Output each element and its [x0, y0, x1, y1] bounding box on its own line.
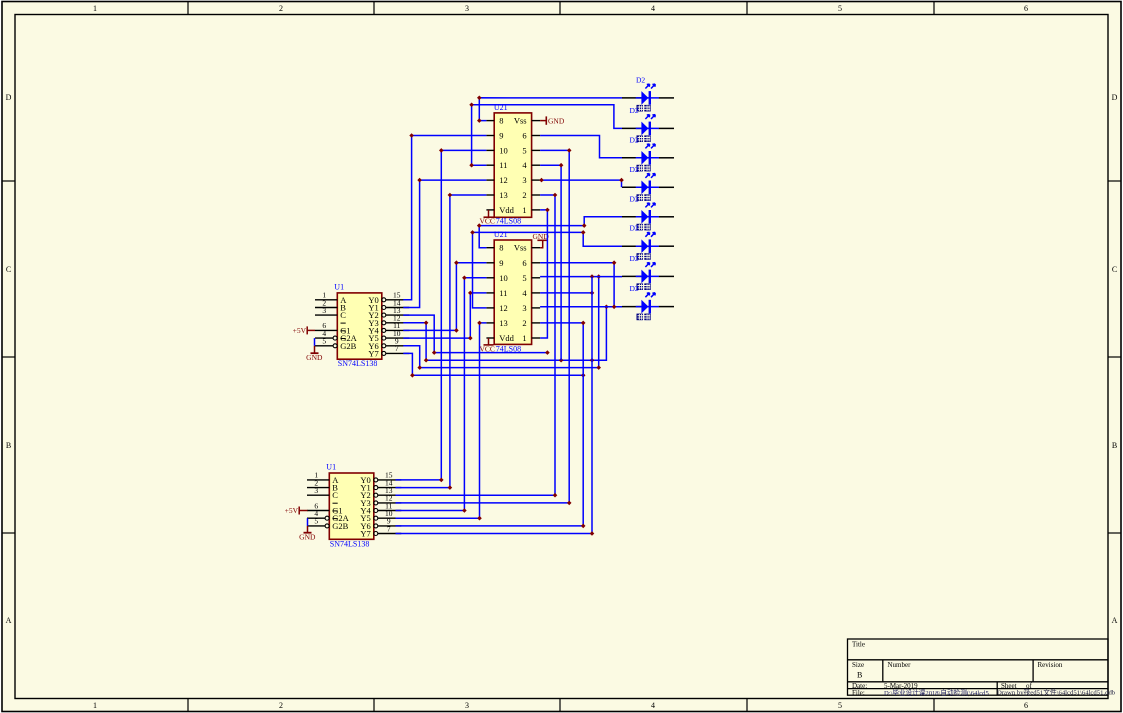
svg-text:74LS08: 74LS08	[496, 217, 521, 226]
U1-bottom output pin 11 (Y4) stub with bubble	[374, 509, 378, 513]
U21-bottom right pin 3 stub	[532, 307, 541, 309]
svg-text:2: 2	[522, 190, 526, 200]
svg-text:6: 6	[522, 131, 526, 141]
svg-text:File:: File:	[852, 689, 865, 697]
U21-top left pin 11 stub	[486, 164, 494, 166]
svg-text:Y7: Y7	[368, 348, 378, 358]
LED D2 (row 6)	[622, 224, 674, 260]
svg-text:3: 3	[465, 701, 469, 710]
svg-text:C: C	[6, 265, 11, 274]
U1-bottom pin 1 (A) stub	[307, 479, 329, 481]
svg-text:5-Mar-2019: 5-Mar-2019	[884, 682, 918, 690]
svg-text:7: 7	[387, 524, 391, 533]
svg-text:G2B: G2B	[340, 341, 356, 351]
IC U21-top (74LS08) body	[494, 113, 531, 217]
ground GND at U1-top	[314, 346, 316, 353]
U21-bottom left pin 11 stub	[486, 292, 494, 294]
U21-top left pin 13 stub	[486, 194, 494, 196]
svg-text:6: 6	[522, 258, 526, 268]
U21-bottom left pin Vdd stub	[486, 337, 494, 339]
LED D2 (row 7)	[622, 254, 674, 290]
svg-text:5: 5	[838, 701, 842, 710]
svg-text:5: 5	[522, 273, 526, 283]
zone tick marks	[187, 2, 189, 15]
U21-bottom right pin 5 stub	[532, 277, 541, 279]
U21-top right pin 5 stub	[532, 149, 541, 151]
U1-top pin 5 (G2B) stub with bubble	[315, 345, 333, 347]
svg-text:SN74LS138: SN74LS138	[330, 539, 370, 548]
wire U21-bottom pin5 to LED7	[540, 274, 622, 279]
wire U1-top Y7 band	[403, 353, 585, 377]
wire U21-bottom pin6 to LED8 column	[540, 260, 616, 309]
svg-text:10: 10	[499, 145, 508, 155]
U1-bottom pin 4 (G2A) stub with bubble	[307, 517, 325, 519]
title block	[848, 639, 1109, 697]
svg-text:U1: U1	[334, 282, 344, 291]
svg-text:A: A	[1112, 616, 1118, 625]
U21-top right pin 6 stub	[532, 135, 541, 137]
svg-text:VCC: VCC	[480, 217, 495, 226]
svg-text:Title: Title	[852, 641, 865, 649]
ground GND at U21-bottom Vss	[540, 240, 543, 247]
svg-text:Y7: Y7	[360, 529, 370, 539]
svg-text:4: 4	[651, 4, 655, 13]
U1-bottom output pin 10 (Y5) stub with bubble	[374, 516, 378, 520]
wire U21-top pin10 to U1-bottom pin15	[396, 148, 487, 482]
U21-top right pin Vss stub	[532, 120, 541, 122]
U1-top output pin 9 (Y6) stub with bubble	[382, 344, 386, 348]
svg-text:8: 8	[499, 243, 503, 253]
wire U1-top Y1 to U21-top pin12	[403, 178, 486, 308]
svg-text:B: B	[6, 441, 11, 450]
svg-text:5: 5	[522, 145, 526, 155]
svg-text:4: 4	[522, 160, 527, 170]
U1-top output pin 13 (Y2) stub with bubble	[382, 313, 386, 317]
svg-text:D2: D2	[630, 254, 639, 263]
svg-text:6: 6	[1024, 4, 1028, 13]
U1-top pin 4 (G2A) stub with bubble	[315, 337, 333, 339]
U1-bottom G2A-G2B tie wire	[307, 518, 309, 526]
svg-text:3: 3	[522, 175, 526, 185]
U1-bottom pin 3 (C) stub	[307, 494, 329, 496]
svg-text:D2: D2	[636, 75, 645, 84]
wire U21-bottom pin3 to LED8	[540, 306, 622, 308]
svg-text:+5V: +5V	[293, 326, 307, 335]
svg-text:D: D	[6, 93, 12, 102]
svg-text:D2: D2	[630, 224, 639, 233]
svg-text:3: 3	[465, 4, 469, 13]
ground GND at U1-bottom	[307, 526, 309, 533]
svg-text:8: 8	[499, 116, 503, 126]
wire U1-top Y2 to H0 band	[403, 315, 549, 355]
IC U1-bottom (SN74LS138) body	[329, 473, 374, 539]
svg-text:5: 5	[322, 337, 326, 346]
svg-text:1: 1	[93, 4, 97, 13]
svg-text:U21: U21	[494, 230, 508, 239]
U1-top output pin 12 (Y3) stub with bubble	[382, 321, 386, 325]
LED D2 (row 1)	[622, 75, 674, 111]
power port VCC at U21-top Vdd	[488, 210, 490, 217]
LED D2 (row 5)	[622, 194, 674, 230]
power port VCC at U21-bottom Vdd	[488, 338, 490, 345]
wire U21-top pin8 to LED1	[477, 96, 622, 123]
wire U21-top pin2 to U1-bottom pin13	[396, 193, 558, 498]
wire U21-top pin3 to LED4	[539, 178, 624, 188]
svg-text:10: 10	[499, 273, 508, 283]
svg-text:GND: GND	[299, 533, 316, 542]
U21-bottom left pin 8 stub	[486, 247, 494, 249]
svg-text:6: 6	[1024, 701, 1028, 710]
wire U1-top Y0 to U21-top pin9	[403, 133, 486, 300]
wire U21-bottom pin12 to LED6	[470, 230, 622, 308]
U1-bottom output pin 14 (Y1) stub with bubble	[374, 486, 378, 490]
wire U21-bottom pin13 to U1-bottom pin10	[396, 321, 487, 521]
wire U21-top pin11 to LED2	[469, 103, 622, 168]
U21-top right pin 1 stub	[532, 209, 541, 211]
svg-text:11: 11	[499, 288, 507, 298]
svg-text:9: 9	[499, 131, 503, 141]
wire U21-top pin6 to LED3	[540, 136, 622, 158]
svg-text:GND: GND	[548, 116, 565, 125]
svg-text:5: 5	[838, 4, 842, 13]
U1-bottom pin 5 (G2B) stub with bubble	[307, 525, 325, 527]
wire U21-top pin13 to U1-bottom pin14	[396, 193, 487, 490]
U1-bottom output pin 12 (Y3) stub with bubble	[374, 501, 378, 505]
IC U21-bottom (74LS08) body	[494, 240, 531, 344]
svg-text:U1: U1	[326, 463, 336, 472]
U1-top pin 1 (A) stub	[315, 299, 337, 301]
svg-text:7: 7	[395, 344, 399, 353]
U21-bottom right pin 4 stub	[532, 292, 541, 294]
svg-text:13: 13	[499, 318, 508, 328]
U21-top left pin 9 stub	[486, 135, 494, 137]
wire U1-top Y3 to LED8 column	[403, 305, 608, 363]
svg-text:Size: Size	[852, 661, 864, 669]
U1-top pin 2 (B) stub	[315, 307, 337, 309]
U21-bottom right pin Vss stub	[532, 247, 541, 249]
U21-top right pin 3 stub	[532, 179, 541, 181]
svg-text:D2: D2	[630, 135, 639, 144]
LED D2 (row 8)	[622, 284, 674, 320]
U21-top right pin 4 stub	[532, 164, 541, 166]
svg-text:Vdd: Vdd	[499, 333, 514, 343]
wire U21-top pin1 to U21-bottom pin1	[540, 208, 550, 338]
svg-text:2: 2	[522, 318, 526, 328]
svg-text:3: 3	[322, 306, 326, 315]
svg-text:C: C	[332, 490, 338, 500]
svg-text:D2: D2	[630, 284, 639, 293]
svg-text:Number: Number	[888, 661, 912, 669]
U21-bottom left pin 10 stub	[486, 277, 494, 279]
wire U1-bottom pin7 column to LED7 row	[396, 277, 595, 536]
U1-top pin 3 (C) stub	[315, 314, 337, 316]
svg-text:3: 3	[522, 303, 526, 313]
wire U21-bottom pin4 to node	[540, 291, 594, 296]
svg-text:B: B	[1112, 441, 1117, 450]
wire U21-bottom pin2 to U1-bottom pin9	[396, 321, 586, 529]
svg-text:D:\毕业设计课2018\自动检测(\64lcd5: D:\毕业设计课2018\自动检测(\64lcd5	[884, 688, 989, 697]
svg-text:Vdd: Vdd	[499, 205, 514, 215]
svg-text:SN74LS138: SN74LS138	[338, 359, 378, 368]
U1-bottom output pin 15 (Y0) stub with bubble	[374, 478, 378, 482]
U1-top output pin 14 (Y1) stub with bubble	[382, 306, 386, 310]
U21-bottom left pin 9 stub	[486, 262, 494, 264]
power port +5V at U1-bottom pin G1	[299, 510, 307, 512]
svg-text:D2: D2	[630, 106, 639, 115]
U1-bottom pin 2 (B) stub	[307, 487, 329, 489]
wire U21-bottom pin8 to LED5	[477, 217, 622, 248]
U21-bottom right pin 1 stub	[532, 337, 541, 339]
U1-top output pin 11 (Y4) stub with bubble	[382, 328, 386, 332]
U1-top output pin 7 (Y7) stub with bubble	[382, 351, 386, 355]
svg-text:+5V: +5V	[285, 506, 299, 515]
U1-top output pin 10 (Y5) stub with bubble	[382, 336, 386, 340]
svg-text:12: 12	[499, 303, 508, 313]
svg-text:9: 9	[499, 258, 503, 268]
U1-top pin 6 (G1) stub	[315, 329, 337, 331]
svg-text:2: 2	[279, 701, 283, 710]
wire U1-top Y6 to LED7 column	[403, 274, 601, 370]
svg-text:11: 11	[499, 160, 507, 170]
svg-text:D: D	[1112, 93, 1118, 102]
wire U21-bottom pin10 to U1-bottom pin11	[396, 276, 487, 513]
U1-bottom output pin 9 (Y6) stub with bubble	[374, 524, 378, 528]
svg-text:D2: D2	[630, 165, 639, 174]
svg-text:Vss: Vss	[514, 116, 527, 126]
svg-text:2: 2	[279, 4, 283, 13]
U1-bottom output pin 13 (Y2) stub with bubble	[374, 493, 378, 497]
svg-text:4: 4	[651, 701, 655, 710]
svg-text:1: 1	[522, 333, 526, 343]
svg-text:5: 5	[314, 517, 318, 526]
power port +5V at U1-top pin G1	[307, 329, 315, 331]
svg-text:A: A	[6, 616, 12, 625]
wire U1-top Y5 to U21-bottom pin11	[403, 291, 486, 341]
U21-bottom left pin 12 stub	[486, 307, 494, 309]
svg-text:GND: GND	[306, 353, 323, 362]
U1-top output pin 15 (Y0) stub with bubble	[382, 298, 386, 302]
LED D2 (row 2)	[622, 106, 674, 142]
U21-top left pin 8 stub	[486, 120, 494, 122]
U21-top left pin 10 stub	[486, 149, 494, 151]
svg-text:C: C	[340, 310, 346, 320]
U21-bottom left pin 13 stub	[486, 322, 494, 324]
svg-text:13: 13	[499, 190, 508, 200]
U1-bottom pin 6 (G1) stub	[307, 510, 329, 512]
svg-text:Vss: Vss	[514, 243, 527, 253]
svg-text:1: 1	[93, 701, 97, 710]
svg-text:C: C	[1112, 265, 1117, 274]
svg-text:1: 1	[522, 205, 526, 215]
svg-text:G2B: G2B	[332, 521, 348, 531]
svg-text:3: 3	[314, 486, 318, 495]
svg-text:12: 12	[499, 175, 508, 185]
U21-bottom right pin 6 stub	[532, 262, 541, 264]
U21-top left pin 12 stub	[486, 179, 494, 181]
svg-text:D2: D2	[630, 194, 639, 203]
U21-top right pin 2 stub	[532, 194, 541, 196]
ground GND at U21-top Vss	[540, 120, 546, 122]
svg-text:Revision: Revision	[1038, 661, 1063, 669]
LED D2 (row 3)	[622, 135, 674, 171]
wire U21-top pin4 down to band	[540, 163, 563, 360]
wire U21-top pin5 to U1-bottom pin12	[396, 148, 572, 505]
svg-text:B: B	[857, 671, 862, 680]
svg-text:Drawn by筏ed51文件\64lcd51\64lcd5: Drawn by筏ed51文件\64lcd51\64lcd51.ddb	[997, 688, 1116, 697]
U21-bottom right pin 2 stub	[532, 322, 541, 324]
LED D2 (row 4)	[622, 165, 674, 201]
IC U1-top (SN74LS138) body	[337, 293, 382, 359]
U1-top G2A-G2B tie wire	[314, 338, 316, 346]
U1-bottom output pin 7 (Y7) stub with bubble	[374, 532, 378, 536]
svg-text:4: 4	[522, 288, 527, 298]
wire U1-top Y4 to U21-bottom pin9	[403, 260, 486, 332]
U21-top left pin Vdd stub	[486, 209, 494, 211]
